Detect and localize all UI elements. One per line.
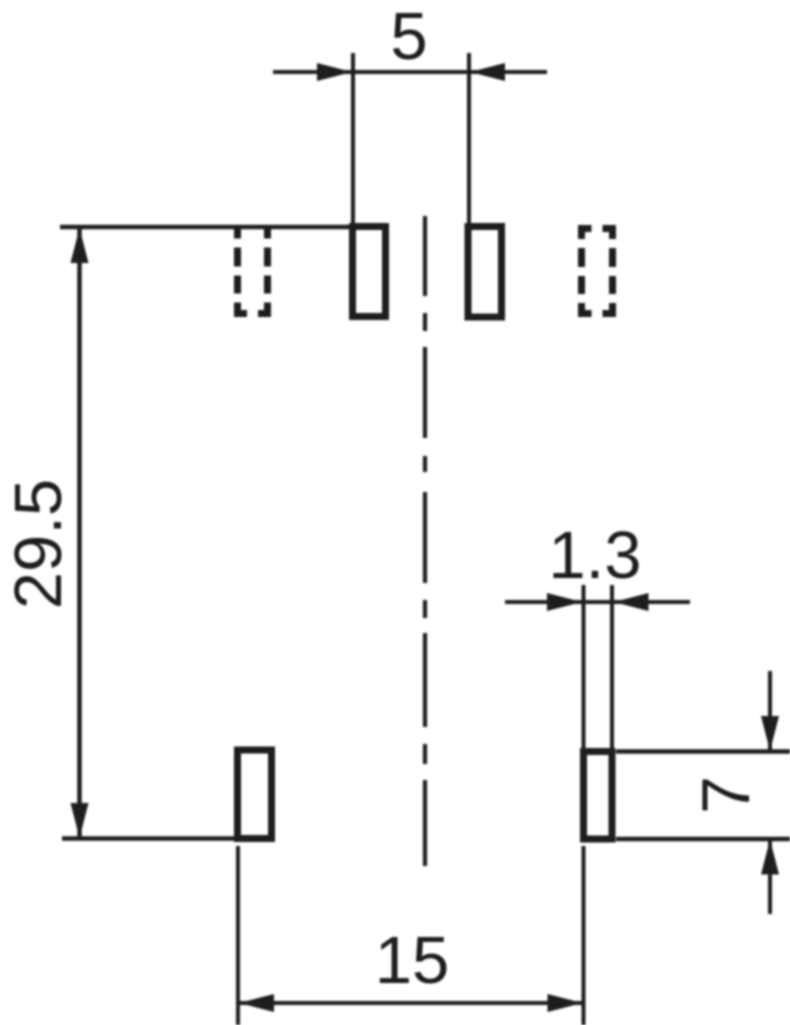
extension line bottom-right pad [582, 846, 586, 1025]
body top edge line [60, 225, 349, 230]
dimension line 7 lower [768, 839, 772, 914]
arrow right of dim 1.3 [614, 593, 649, 611]
arrow left of dim 1.3 [547, 593, 582, 611]
pad hidden top-left [238, 225, 268, 314]
arrow down of dim 29.5 [71, 803, 89, 838]
extension line right pin 2 [467, 53, 471, 232]
svg-text:15: 15 [375, 923, 450, 998]
arrow left of dim 15 [239, 994, 274, 1012]
dimension line 5 [273, 70, 547, 74]
svg-text:7: 7 [688, 776, 764, 814]
arrow up of dim 7 [761, 840, 779, 875]
pad bottom-left [238, 750, 272, 839]
dimension line 29.5 [77, 227, 82, 839]
pad top edge extension line [616, 749, 790, 754]
pad bottom edge extension line [616, 837, 790, 842]
extension line bottom-left pad [236, 846, 240, 1025]
svg-text:1.3: 1.3 [548, 518, 641, 593]
pad hidden top-right [582, 229, 613, 314]
arrow up of dim 29.5 [71, 228, 89, 263]
arrow right of dim 15 [548, 994, 583, 1012]
arrow down of dim 7 [761, 716, 779, 751]
center line [423, 216, 427, 866]
svg-text:5: 5 [390, 0, 427, 74]
pad pin 1 top-left [353, 227, 386, 317]
arrow left of dim 5 [317, 63, 352, 81]
dimension line 15 [238, 1001, 584, 1005]
pad bottom-right [584, 752, 613, 840]
svg-text:29.5: 29.5 [1, 479, 76, 609]
extension line pad right edge [610, 585, 614, 750]
dimension line 7 upper [768, 671, 772, 752]
extension line pad left edge [582, 585, 586, 750]
arrow right of dim 5 [470, 63, 505, 81]
dimension line 1.3 [505, 600, 690, 604]
pad pin 2 top-right [468, 227, 502, 318]
body bottom edge line [62, 836, 234, 841]
extension line left pin 1 [351, 53, 355, 232]
